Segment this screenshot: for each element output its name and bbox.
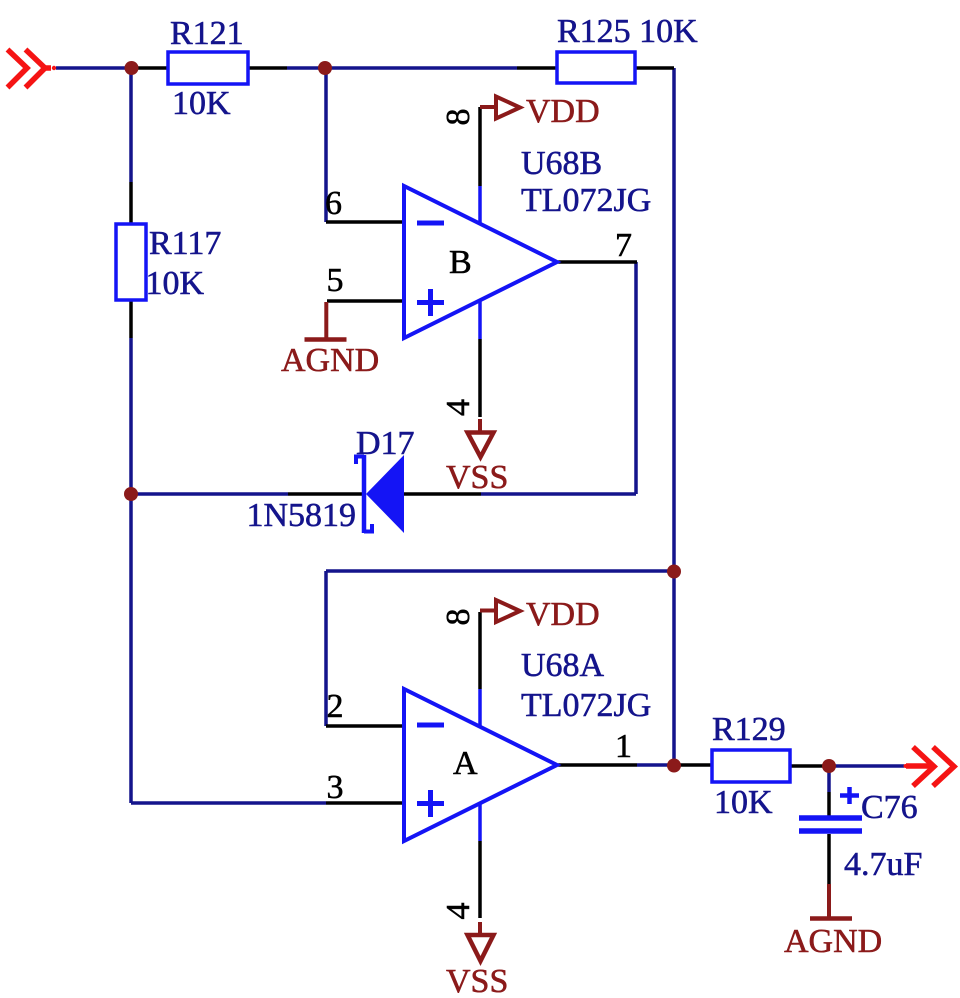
svg-text:TL072JG: TL072JG [521,687,651,724]
svg-text:VSS: VSS [446,963,508,998]
svg-text:TL072JG: TL072JG [521,182,651,219]
svg-text:VDD: VDD [526,596,600,633]
svg-text:10K: 10K [172,85,231,122]
svg-text:D17: D17 [356,425,415,462]
svg-text:AGND: AGND [281,342,379,379]
svg-text:5: 5 [327,262,344,299]
svg-text:6: 6 [325,185,342,222]
svg-text:8: 8 [440,609,477,626]
svg-text:1N5819: 1N5819 [247,497,357,534]
svg-text:7: 7 [615,227,632,264]
svg-text:3: 3 [327,769,344,806]
svg-text:C76: C76 [861,789,918,826]
svg-text:A: A [453,745,478,782]
svg-text:VDD: VDD [526,93,600,130]
svg-text:B: B [449,244,472,281]
svg-text:R125 10K: R125 10K [557,13,698,50]
svg-text:10K: 10K [714,784,773,821]
svg-text:4.7uF: 4.7uF [844,846,922,883]
svg-text:R117: R117 [149,225,221,262]
svg-text:R121: R121 [170,15,244,52]
svg-text:4: 4 [440,903,477,920]
svg-text:AGND: AGND [784,923,882,960]
svg-text:R129: R129 [712,711,786,748]
svg-text:U68A: U68A [521,647,605,684]
svg-text:4: 4 [440,399,477,416]
svg-text:U68B: U68B [521,145,602,182]
svg-text:2: 2 [327,688,344,725]
svg-text:VSS: VSS [446,459,508,496]
svg-text:1: 1 [615,728,632,765]
svg-text:10K: 10K [146,265,205,302]
svg-text:8: 8 [440,109,477,126]
